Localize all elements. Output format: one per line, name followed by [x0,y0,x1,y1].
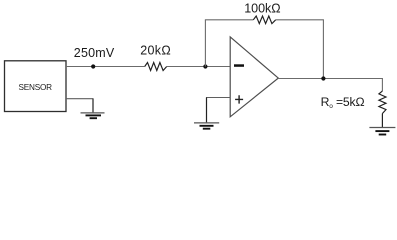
wire: op-amp output [278,78,382,80]
wire: load resistor to ground [381,114,383,128]
wire: feedback top left segment [205,19,253,21]
junction: 250mV node [91,64,95,68]
op-amp [230,37,278,117]
wire: feedback right vertical [322,20,324,79]
svg-text:Ro =5kΩ: Ro =5kΩ [321,95,365,110]
wire: sensor output to 20k resistor [66,66,145,68]
op-amp non-inverting input marker (plus) [235,95,243,103]
ground (load) [369,128,395,135]
wire: feedback top right segment [276,19,324,21]
wire: sensor ground stub vertical [92,99,94,113]
resistor Ro 5k (load) [379,91,386,114]
svg-text:100kΩ: 100kΩ [244,2,280,16]
wire: op-amp ground stub vertical [206,98,208,123]
svg-text:250mV: 250mV [74,46,115,60]
ground (sensor) [81,113,105,118]
sensor block [5,61,67,112]
resistor 20k [145,63,167,71]
junction: output node [321,76,325,80]
wire: sensor lower terminal horizontal [66,98,94,100]
wire: feedback left vertical [204,20,206,67]
ground (op-amp non-inverting input) [194,123,219,129]
wire: 20k resistor to inverting input [167,66,231,68]
resistor 100k [253,16,275,24]
wire: output node down to load resistor [381,78,383,91]
wire: non-inverting input horizontal [206,97,230,99]
svg-text:20kΩ: 20kΩ [140,44,171,58]
svg-text:SENSOR: SENSOR [19,83,53,92]
op-amp inverting input marker (minus) [234,64,244,67]
junction: inverting input node [203,64,207,68]
